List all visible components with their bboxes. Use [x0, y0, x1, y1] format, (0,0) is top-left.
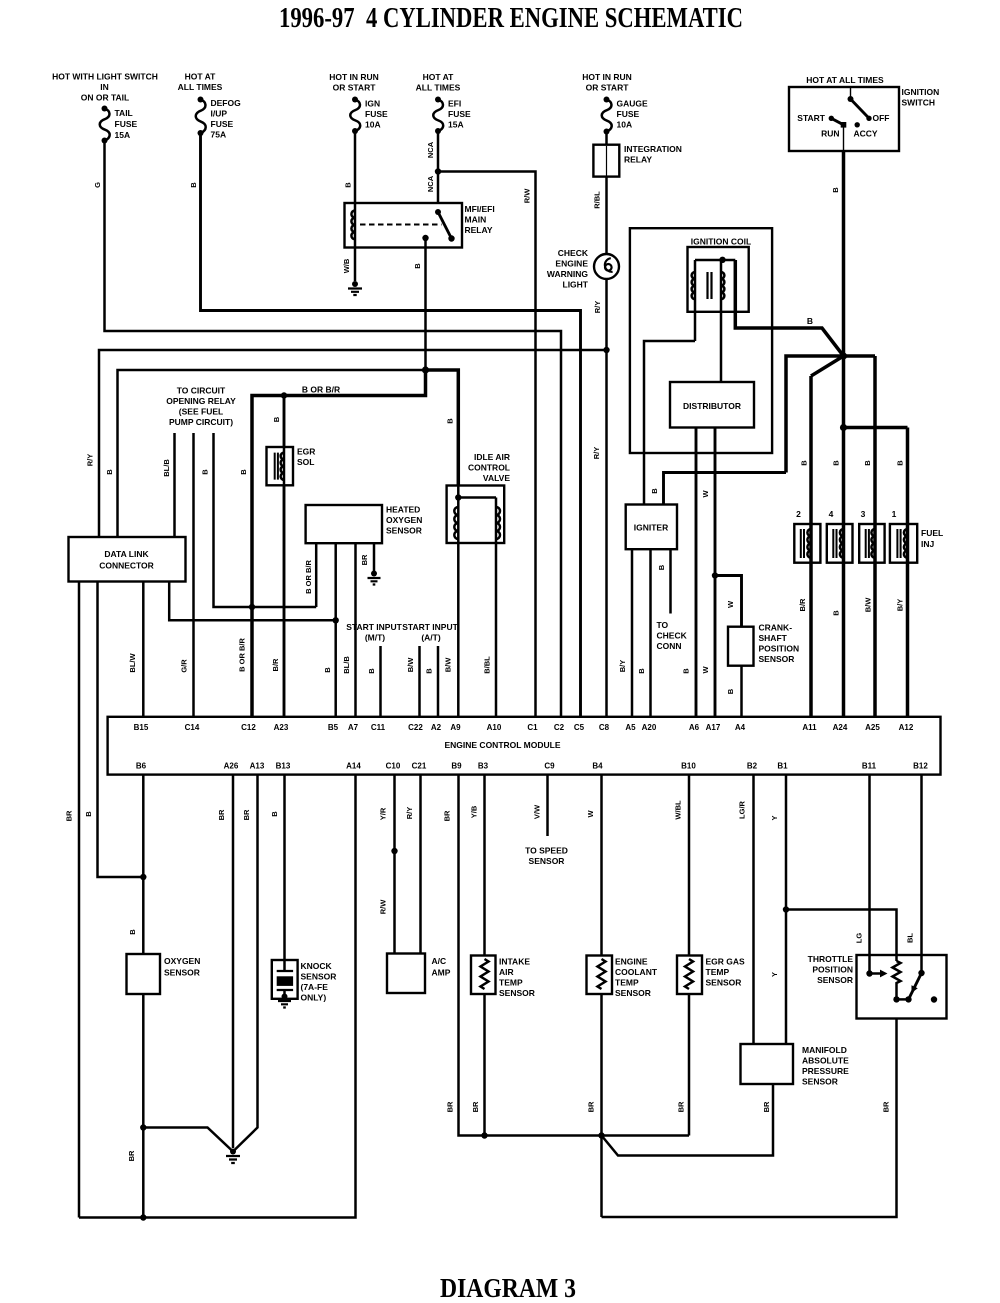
wire W/BL: ECM B10 to EGR gas temp sensor	[688, 775, 691, 956]
fuel injector 4 bars and winding	[833, 529, 836, 558]
svg-text:W: W	[726, 600, 735, 608]
svg-text:FUSE: FUSE	[115, 119, 138, 129]
svg-text:PUMP CIRCUIT): PUMP CIRCUIT)	[169, 417, 233, 427]
svg-text:PRESSURE: PRESSURE	[802, 1066, 849, 1076]
wire B/R: injector2 wire to ECM A11	[809, 376, 813, 717]
svg-text:A6: A6	[689, 723, 700, 732]
svg-text:B: B	[270, 811, 279, 817]
svg-text:ENGINE CONTROL MODULE: ENGINE CONTROL MODULE	[444, 740, 560, 750]
svg-text:Y/B: Y/B	[470, 805, 479, 818]
node: B rail lower junction	[840, 424, 847, 431]
svg-text:C5: C5	[574, 723, 585, 732]
svg-text:A10: A10	[487, 723, 502, 732]
wire BL/B: heated oxygen sensor pin3 to ECM A7	[354, 543, 357, 717]
svg-text:B: B	[726, 688, 735, 694]
wire B: ignition switch to B junction (thick)	[842, 151, 846, 356]
node: EFI fuse / R/W branch	[435, 168, 441, 174]
ECM engine control module box	[108, 717, 941, 775]
check engine warning light bulb	[594, 254, 619, 279]
svg-text:B: B	[650, 488, 659, 494]
svg-text:R/Y: R/Y	[593, 301, 602, 314]
svg-text:VALVE: VALVE	[483, 473, 510, 483]
svg-text:B: B	[637, 668, 646, 674]
ignition switch contacts	[848, 96, 854, 102]
wire B: MFI relay output down to junction	[424, 238, 427, 370]
svg-text:NCA: NCA	[426, 141, 435, 158]
svg-text:B6: B6	[136, 762, 147, 771]
svg-text:EGR: EGR	[297, 447, 315, 457]
svg-text:A11: A11	[802, 723, 817, 732]
svg-text:BR: BR	[217, 809, 226, 820]
wire B: start input AT stub to ECM A2	[437, 646, 440, 717]
node: intake sensor return at BR rail	[481, 1132, 487, 1138]
svg-text:SHAFT: SHAFT	[759, 633, 788, 643]
svg-text:POSITION: POSITION	[759, 644, 800, 654]
svg-text:FUEL: FUEL	[921, 528, 943, 538]
svg-text:G/R: G/R	[180, 659, 189, 673]
wire BR: oxygen sensor down to ground net	[142, 994, 145, 1218]
svg-text:A7: A7	[348, 723, 359, 732]
fuel injector 1 bars and winding	[897, 529, 900, 558]
svg-text:B OR B/R: B OR B/R	[304, 560, 313, 594]
svg-text:GAUGE: GAUGE	[617, 99, 649, 109]
svg-text:C21: C21	[412, 762, 427, 771]
TPS resistor	[893, 961, 901, 999]
ignition coil secondary winding	[721, 272, 724, 299]
svg-text:BL/B: BL/B	[342, 656, 351, 674]
svg-text:B: B	[367, 668, 376, 674]
wire: DLC pin down right to B5 wire	[169, 582, 336, 621]
wire G/R: circuit opening relay to ECM C14	[192, 433, 195, 717]
fuse IGN 10A	[352, 97, 358, 103]
svg-text:B: B	[863, 460, 872, 466]
svg-text:COOLANT: COOLANT	[615, 967, 658, 977]
ground below MFI relay coil (W/B)	[354, 248, 357, 282]
wire BR: coolant temp sensor to BR rail	[600, 994, 603, 1136]
MFI relay output node	[422, 235, 428, 241]
node: ignition coil B tap	[719, 257, 725, 263]
MFI relay coil winding	[354, 203, 357, 248]
wire BL/W: DLC to ECM B15	[142, 582, 145, 717]
svg-text:4: 4	[829, 509, 834, 519]
svg-text:B9: B9	[451, 762, 462, 771]
svg-text:(SEE FUEL: (SEE FUEL	[179, 407, 223, 417]
svg-text:INTAKE: INTAKE	[499, 957, 530, 967]
svg-text:B OR B/R: B OR B/R	[302, 385, 340, 395]
svg-text:C1: C1	[527, 723, 538, 732]
svg-text:POSITION: POSITION	[812, 965, 853, 975]
svg-text:START: START	[797, 113, 826, 123]
wire: ignition coil secondary to distributor	[720, 260, 723, 382]
svg-text:3: 3	[861, 509, 866, 519]
svg-text:B/Y: B/Y	[618, 660, 627, 673]
ignition coil T1 outer box	[630, 228, 772, 453]
svg-text:NCA: NCA	[426, 175, 435, 192]
svg-text:B: B	[323, 667, 332, 673]
node: lamp wire / R/Y branch	[603, 347, 609, 353]
wire B: ignition switch output inside box	[843, 125, 845, 151]
svg-text:75A: 75A	[211, 130, 227, 140]
svg-text:ALL TIMES: ALL TIMES	[416, 83, 461, 93]
svg-text:TEMP: TEMP	[615, 978, 639, 988]
svg-text:R/Y: R/Y	[86, 454, 95, 467]
ignition coil T1 inner box	[688, 247, 749, 312]
wire LG/R: ECM B2 to MAP sensor	[752, 775, 755, 1044]
svg-text:ONLY): ONLY)	[301, 993, 327, 1003]
wire B: distributor to ECM A6	[695, 428, 698, 717]
svg-text:TO SPEED: TO SPEED	[525, 846, 568, 856]
svg-text:RELAY: RELAY	[465, 225, 493, 235]
wire B/W: injector3 wire to ECM A25	[873, 356, 877, 717]
node: B rail upper junction	[840, 352, 847, 359]
svg-text:C11: C11	[371, 723, 386, 732]
fuel injector 2 bars and winding	[801, 529, 804, 558]
wire B: start input MT stub to ECM C11	[379, 646, 382, 717]
wire B: igniter to ECM A20	[649, 549, 652, 717]
wire: circuit opening relay down, right to heated oxygen sensor pin1	[214, 433, 317, 607]
svg-text:HEATED: HEATED	[386, 505, 420, 515]
wire W: branch to crankshaft position sensor	[715, 576, 742, 627]
IAC valve right winding	[496, 507, 500, 539]
svg-text:B: B	[832, 460, 841, 466]
svg-text:B12: B12	[913, 762, 928, 771]
wire B: DLC pin down, right to oxygen sensor wire	[98, 582, 144, 878]
svg-text:BR: BR	[443, 810, 452, 821]
svg-text:ENGINE: ENGINE	[615, 957, 648, 967]
crankshaft position sensor box	[728, 627, 754, 666]
wire Y: branch to TPS resistor	[786, 910, 897, 962]
svg-text:HOT AT: HOT AT	[423, 72, 454, 82]
wire inside IAC valve to coil2	[458, 496, 496, 499]
svg-text:IGN: IGN	[365, 99, 380, 109]
svg-text:1996-97 4 CYLINDER ENGINE SCH: 1996-97 4 CYLINDER ENGINE SCHEMATIC	[279, 3, 743, 34]
A/C amplifier box	[387, 954, 425, 994]
wire B: ignition coil to B junction (thick)	[735, 260, 843, 356]
svg-text:OPENING RELAY: OPENING RELAY	[166, 396, 236, 406]
svg-text:Y: Y	[770, 815, 779, 820]
svg-text:B: B	[446, 418, 455, 424]
svg-text:BR: BR	[677, 1101, 686, 1112]
svg-text:OR START: OR START	[586, 83, 630, 93]
EGR gas temp sensor resistor	[685, 959, 693, 989]
svg-text:INTEGRATION: INTEGRATION	[624, 144, 682, 154]
wire NCA: efi fuse to MFI relay switch	[437, 131, 440, 203]
svg-text:RUN: RUN	[821, 129, 839, 139]
svg-text:SENSOR: SENSOR	[706, 978, 742, 988]
wire BR: ECM A26 to main ground	[232, 775, 235, 1148]
svg-text:(7A-FE: (7A-FE	[301, 982, 329, 992]
svg-text:FUSE: FUSE	[448, 109, 471, 119]
EGR solenoid box	[267, 447, 294, 485]
wire BR: heated oxygen sensor pin4 to ground	[373, 543, 376, 572]
wire BR: intake air temp sensor to BR rail	[483, 994, 486, 1136]
svg-text:B: B	[344, 182, 353, 188]
wire B: igniter stub to check connector	[669, 549, 672, 613]
TPS switch blade with arrowhead	[909, 973, 922, 999]
svg-text:HOT WITH LIGHT SWITCH: HOT WITH LIGHT SWITCH	[52, 72, 158, 82]
svg-text:B: B	[239, 469, 248, 475]
IAC junction node	[455, 494, 461, 500]
svg-text:MFI/EFI: MFI/EFI	[465, 204, 495, 214]
svg-text:BL/W: BL/W	[128, 653, 137, 673]
svg-text:SENSOR: SENSOR	[164, 968, 200, 978]
wire Y: ECM B1 to MAP sensor	[785, 775, 788, 1044]
wire: gauge fuse to integration relay	[605, 132, 608, 145]
svg-text:B/W: B/W	[444, 657, 453, 673]
svg-text:AIR: AIR	[499, 967, 514, 977]
svg-text:B3: B3	[478, 762, 489, 771]
svg-text:EGR GAS: EGR GAS	[706, 957, 746, 967]
wire BL: ECM B12 to TPS switch	[920, 775, 923, 973]
wire B: diagonal to injector2 wire	[811, 356, 844, 376]
wire B: ECM B6 to oxygen sensor	[142, 775, 145, 954]
svg-text:B/W: B/W	[406, 657, 415, 673]
node: Y branch to TPS	[783, 906, 789, 912]
svg-text:1: 1	[892, 509, 897, 519]
svg-text:B: B	[682, 668, 691, 674]
svg-text:FUSE: FUSE	[211, 119, 234, 129]
svg-text:CHECK: CHECK	[558, 248, 589, 258]
svg-text:B13: B13	[276, 762, 291, 771]
igniter U2 box	[626, 505, 677, 550]
svg-text:DATA LINK: DATA LINK	[104, 549, 149, 559]
svg-text:C22: C22	[408, 723, 423, 732]
svg-text:A/C: A/C	[432, 956, 447, 966]
svg-text:A5: A5	[625, 723, 636, 732]
svg-text:C12: C12	[241, 723, 256, 732]
relay K1 MFI/EFI main relay box	[345, 203, 463, 248]
svg-text:TO CIRCUIT: TO CIRCUIT	[177, 386, 226, 396]
wire BR: ECM B9 down right to EGR gas temp sensor return	[459, 775, 690, 1136]
svg-text:A4: A4	[735, 723, 746, 732]
node: oxygen wire at BR rail	[140, 1214, 146, 1220]
switch S1 ignition switch box	[789, 87, 899, 151]
svg-text:CRANK-: CRANK-	[759, 623, 793, 633]
svg-text:I/UP: I/UP	[211, 109, 228, 119]
svg-text:B: B	[896, 460, 905, 466]
svg-text:DEFOG: DEFOG	[211, 98, 242, 108]
svg-text:DIAGRAM 3: DIAGRAM 3	[440, 1273, 576, 1303]
svg-text:BR: BR	[882, 1101, 891, 1112]
wire BR: bottom rail to A14	[79, 775, 356, 1218]
wire B: feed to igniter pin2	[664, 473, 787, 505]
svg-text:B/R: B/R	[798, 598, 807, 612]
svg-text:B10: B10	[681, 762, 696, 771]
IAC valve left winding	[454, 507, 458, 539]
fuel injector 4 box	[827, 524, 853, 563]
svg-text:B: B	[807, 316, 813, 326]
oxygen sensor box	[127, 954, 161, 994]
fuel injector 3 box	[859, 524, 884, 563]
wire B: branch to EGR solenoid	[283, 396, 286, 449]
svg-text:AMP: AMP	[432, 968, 451, 978]
wire B: junction2 right to injector1 wire	[844, 426, 908, 430]
svg-text:R/W: R/W	[523, 188, 532, 204]
wire V/W: ECM C9 stub to speed sensor	[546, 775, 549, 836]
svg-text:BR: BR	[242, 809, 251, 820]
node: distributor W / crank sensor branch	[712, 572, 718, 578]
EGR gas temp sensor box	[677, 956, 702, 995]
node: oxygen sensor wire / DLC branch	[140, 874, 146, 880]
throttle position sensor box	[857, 955, 947, 1019]
svg-text:A14: A14	[346, 762, 361, 771]
svg-text:W/B: W/B	[342, 258, 351, 273]
svg-text:15A: 15A	[115, 130, 131, 140]
svg-text:B/BL: B/BL	[483, 656, 492, 674]
svg-text:2: 2	[796, 509, 801, 519]
svg-text:B: B	[832, 610, 841, 616]
svg-text:BR: BR	[446, 1101, 455, 1112]
svg-text:IGNITION: IGNITION	[902, 87, 940, 97]
svg-text:B11: B11	[862, 762, 877, 771]
wire B: injector4 riser between junctions	[842, 356, 846, 428]
svg-text:B/Y: B/Y	[896, 599, 905, 612]
svg-text:B: B	[425, 668, 434, 674]
fuel injector 3 bars and winding	[866, 529, 869, 558]
EGR solenoid wire through	[283, 448, 286, 485]
svg-text:10A: 10A	[365, 120, 381, 130]
wire B or B/R: heated oxygen sensor pin1 drop	[315, 543, 318, 607]
svg-text:SENSOR: SENSOR	[615, 988, 651, 998]
svg-text:FUSE: FUSE	[365, 109, 388, 119]
node: oxygen wire to ground branch	[140, 1124, 146, 1130]
svg-text:BR: BR	[127, 1150, 136, 1161]
svg-text:HOT IN RUN: HOT IN RUN	[582, 72, 632, 82]
wire W: distributor to ECM A17	[714, 428, 717, 717]
svg-text:Y: Y	[770, 972, 779, 977]
svg-text:B/R: B/R	[271, 658, 280, 672]
svg-text:B/W: B/W	[864, 597, 873, 613]
distributor box	[670, 382, 754, 428]
coolant temp sensor resistor	[598, 959, 606, 989]
svg-text:MAIN: MAIN	[465, 215, 487, 225]
svg-text:W: W	[701, 666, 710, 674]
svg-text:R/BL: R/BL	[593, 191, 602, 209]
wire B: junction to idle air control valve (thick)	[426, 370, 459, 486]
svg-text:EFI: EFI	[448, 99, 461, 109]
svg-text:W: W	[586, 810, 595, 818]
wire inside integration relay	[606, 146, 608, 176]
svg-text:(M/T): (M/T)	[365, 633, 385, 643]
svg-text:C10: C10	[386, 762, 401, 771]
svg-text:CONTROL: CONTROL	[468, 463, 510, 473]
svg-text:A9: A9	[450, 723, 461, 732]
svg-text:B: B	[657, 564, 666, 570]
svg-text:LG: LG	[855, 933, 864, 944]
wire B/Y: igniter to ECM A5	[631, 549, 634, 717]
MFI relay dashed link	[360, 224, 442, 226]
wire B: injector4 wire to ECM A24	[842, 428, 846, 717]
svg-text:R/Y: R/Y	[405, 807, 414, 820]
wire LG: ECM B11 to TPS wiper	[868, 775, 871, 974]
manifold absolute pressure sensor box	[741, 1044, 794, 1084]
svg-text:BR: BR	[587, 1101, 596, 1112]
knock sensor plates and crystal	[277, 971, 293, 990]
svg-text:B OR B/R: B OR B/R	[238, 638, 247, 672]
svg-text:G: G	[93, 182, 102, 188]
svg-text:B: B	[189, 182, 198, 188]
heated oxygen sensor box	[306, 505, 382, 543]
idle air control valve box	[447, 486, 505, 544]
wire: oxygen net to main ground	[143, 1128, 233, 1152]
EGR solenoid bars and winding	[275, 453, 278, 480]
svg-text:DISTRIBUTOR: DISTRIBUTOR	[683, 401, 741, 411]
svg-text:OFF: OFF	[873, 113, 890, 123]
wire B/Y: injector1 wire to ECM A12	[906, 428, 910, 717]
svg-text:C8: C8	[599, 723, 610, 732]
svg-text:(A/T): (A/T)	[421, 633, 441, 643]
svg-text:BL/B: BL/B	[162, 459, 171, 477]
svg-text:ALL TIMES: ALL TIMES	[178, 82, 223, 92]
fuse TAIL 15A	[102, 106, 108, 112]
svg-text:KNOCK: KNOCK	[301, 961, 333, 971]
wire BR: ECM A13 to main ground	[233, 775, 258, 1152]
svg-text:CHECK: CHECK	[657, 631, 688, 641]
wire: ignition coil primary top bar	[695, 259, 735, 262]
svg-text:CONNECTOR: CONNECTOR	[99, 561, 154, 571]
svg-text:C14: C14	[185, 723, 200, 732]
svg-text:CONN: CONN	[657, 641, 682, 651]
intake air temp sensor resistor	[481, 959, 489, 989]
svg-text:Y/R: Y/R	[379, 807, 388, 820]
svg-text:SENSOR: SENSOR	[802, 1077, 838, 1087]
svg-text:FUSE: FUSE	[617, 109, 640, 119]
wire BR: DLC pin to bottom BR rail	[78, 582, 81, 1218]
svg-text:A2: A2	[431, 723, 442, 732]
svg-text:ON OR TAIL: ON OR TAIL	[81, 93, 129, 103]
svg-text:B4: B4	[592, 762, 603, 771]
svg-text:R/Y: R/Y	[592, 447, 601, 460]
svg-text:SWITCH: SWITCH	[902, 98, 936, 108]
fuel injector 1 box	[890, 524, 917, 563]
svg-text:START INPUT: START INPUT	[402, 622, 458, 632]
svg-text:SENSOR: SENSOR	[499, 988, 535, 998]
ignition coil primary winding	[692, 272, 695, 299]
svg-text:15A: 15A	[448, 120, 464, 130]
svg-text:R/W: R/W	[379, 899, 388, 915]
wire B/W: start input AT stub to ECM C22	[418, 646, 421, 717]
svg-text:BR: BR	[360, 554, 369, 565]
svg-text:SENSOR: SENSOR	[386, 526, 422, 536]
svg-text:V/W: V/W	[533, 804, 542, 819]
svg-text:TAIL: TAIL	[115, 108, 133, 118]
svg-text:INJ: INJ	[921, 539, 935, 549]
svg-text:B5: B5	[328, 723, 339, 732]
svg-text:B: B	[800, 460, 809, 466]
wire R/W: node at efi fuse to ECM C1	[438, 172, 536, 717]
svg-text:B: B	[831, 187, 840, 193]
wire: ignition coil primary to igniter pin1	[694, 260, 697, 341]
svg-text:B: B	[413, 263, 422, 269]
svg-text:IN: IN	[100, 82, 109, 92]
node: coolant sensor return at BR rail	[598, 1132, 604, 1138]
fuel injector 2 box	[794, 524, 820, 563]
wire BR: rail node down to TPS return rail	[600, 1136, 603, 1218]
svg-text:A17: A17	[706, 723, 721, 732]
wire W: ECM B4 to coolant temp sensor	[600, 775, 603, 956]
svg-text:RELAY: RELAY	[624, 155, 652, 165]
svg-text:TEMP: TEMP	[499, 978, 523, 988]
wire B or B/R: junction down-left to ECM C12 (thick)	[252, 370, 426, 717]
svg-text:W: W	[701, 490, 710, 498]
node: splice Y/R to R/W on C10 wire	[391, 848, 397, 854]
heated oxygen sensor ground	[371, 571, 377, 577]
wire R/BL: integration relay to check engine lamp	[605, 177, 608, 254]
wire B: crankshaft position sensor to ECM A4	[740, 666, 743, 717]
TPS wiper contact and arrow	[866, 970, 872, 976]
fuse DEFOG I/UP 75A	[198, 97, 204, 103]
node: main B junction	[422, 366, 429, 373]
